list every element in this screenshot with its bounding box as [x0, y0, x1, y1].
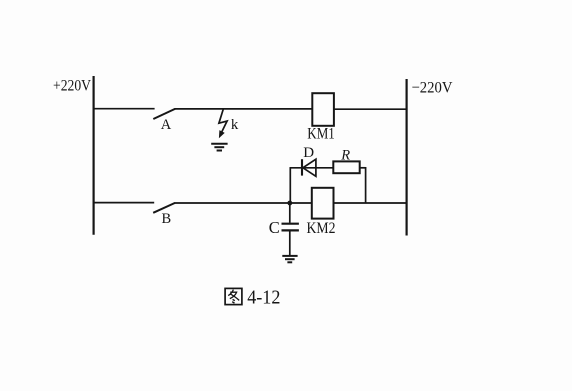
- node -220V label: [412, 80, 453, 97]
- diode D (cathode bar): [301, 159, 303, 175]
- svg-text:k: k: [231, 117, 239, 133]
- capacitor C (top plate): [282, 223, 299, 225]
- relay coil KM2: [312, 188, 334, 219]
- svg-text:KM2: KM2: [307, 220, 336, 237]
- wire bottom row: switch B to right rail through KM2: [175, 202, 408, 204]
- relay coil KM1: [312, 93, 334, 126]
- svg-text:−220V: −220V: [412, 80, 453, 97]
- switch A label: [161, 117, 172, 133]
- wire branch: corner through diode to resistor: [290, 167, 334, 169]
- wire bottom row: rail to switch B: [93, 202, 155, 204]
- node +220V label: [53, 78, 91, 95]
- wire branch right vertical (down to KM2 output wire): [365, 167, 367, 204]
- resistor R: [333, 161, 359, 173]
- wire branch left vertical (junction up to diode): [289, 168, 291, 203]
- wire top row: rail to switch A: [93, 108, 155, 110]
- wire capacitor to ground: [289, 231, 291, 255]
- caption: Chinese character "tu" (figure) drawn as strokes: [225, 288, 242, 304]
- breakdown arrow k (lightning bolt to ground): [219, 109, 227, 138]
- relay KM2 label: [307, 220, 336, 237]
- wire junction down to capacitor: [289, 203, 291, 223]
- caption: figure number 4-12: [247, 287, 280, 309]
- svg-text:KM1: KM1: [307, 126, 335, 143]
- svg-text:A: A: [161, 117, 172, 133]
- diode D (triangle, pointing left): [303, 159, 316, 176]
- node k label: [231, 117, 239, 133]
- wire resistor to right corner: [360, 167, 366, 169]
- wire top row: switch A to KM1: [175, 108, 314, 110]
- switch A (open contact blade): [153, 109, 175, 119]
- switch B (open contact blade): [153, 203, 175, 213]
- diode D label: [303, 145, 314, 161]
- switch B label: [162, 211, 172, 227]
- ground (under lightning k): [211, 144, 227, 151]
- relay KM1 label: [307, 126, 335, 143]
- svg-text:4-12: 4-12: [247, 287, 280, 309]
- capacitor C label: [269, 218, 280, 237]
- svg-text:C: C: [269, 218, 280, 237]
- resistor R label: [340, 147, 350, 163]
- wire right rail (-220V bus): [406, 79, 408, 236]
- junction node (B wire / diode branch / capacitor): [287, 201, 292, 206]
- svg-text:R: R: [340, 147, 350, 163]
- capacitor C (bottom plate): [282, 229, 299, 231]
- svg-text:+220V: +220V: [53, 78, 91, 95]
- svg-text:D: D: [303, 145, 314, 161]
- ground (under capacitor C): [282, 256, 297, 262]
- wire left rail (+220V bus): [92, 76, 94, 235]
- wire top row: KM1 to right rail: [333, 108, 407, 110]
- svg-text:B: B: [162, 211, 172, 227]
